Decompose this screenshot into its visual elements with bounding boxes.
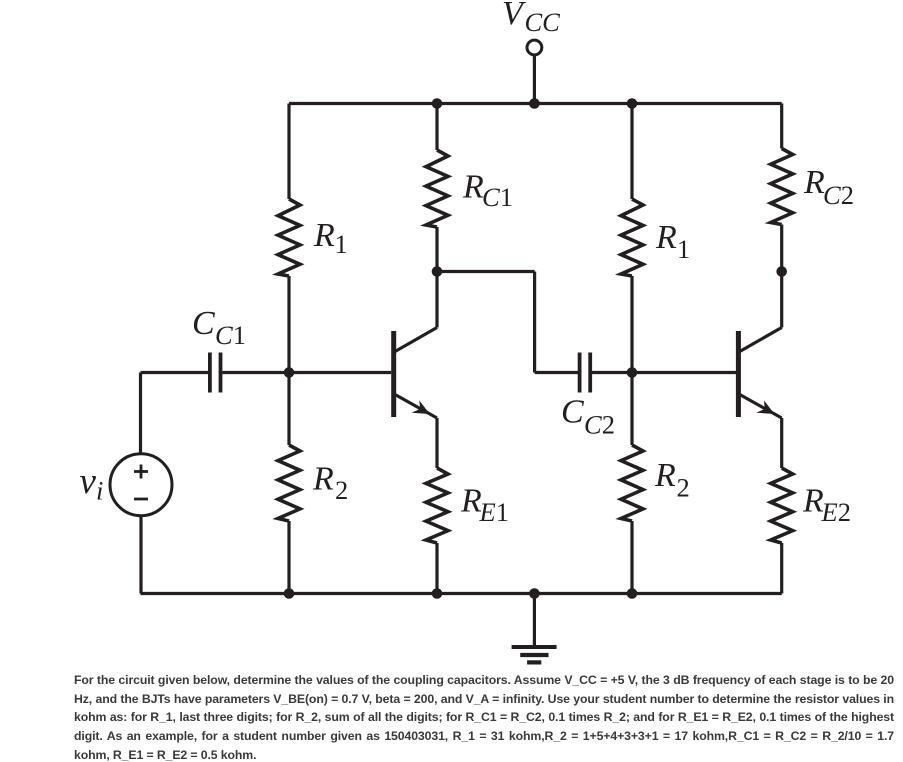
- wire CC2 to Q2 base: [592, 371, 736, 374]
- svg-text:C: C: [192, 305, 215, 342]
- wire Q1 collector vertical: [435, 272, 438, 328]
- wire RE1 bottom: [435, 543, 438, 594]
- resistor RC1: [426, 150, 448, 227]
- svg-text:1: 1: [677, 234, 690, 264]
- wire RC1 bottom: [435, 227, 438, 272]
- wire source bottom: [139, 516, 142, 594]
- wire R1a bottom: [287, 276, 290, 373]
- resistor RE2: [771, 468, 793, 543]
- wire R1b bottom: [630, 276, 633, 373]
- label RC2: [803, 164, 854, 210]
- node bottom dot R2a: [284, 588, 295, 599]
- node base junction stage 2: [627, 367, 638, 378]
- svg-text:C1: C1: [482, 182, 513, 212]
- resistor R2 (stage 1): [278, 445, 300, 521]
- resistor R1 (stage 2): [621, 199, 643, 276]
- wire Vcc stem: [533, 55, 536, 104]
- label R2 (stage 1): [312, 461, 348, 506]
- label RE2: [802, 483, 851, 528]
- transistor Q2 collector diagonal: [740, 328, 782, 352]
- node Vcc junction dot: [529, 98, 540, 109]
- transistor Q1 emitter arrow: [412, 400, 430, 414]
- label R1 (stage 1): [313, 217, 348, 259]
- label CC2: [561, 394, 615, 440]
- label R1 (stage 2): [655, 219, 690, 264]
- node top rail dot R1b: [627, 98, 638, 109]
- wire RE2 bottom: [780, 543, 783, 594]
- wire R2b bottom: [630, 521, 633, 594]
- wire Q2 collector vertical: [780, 272, 783, 328]
- node Q2 collector dot: [776, 266, 787, 277]
- wire to CC2: [535, 371, 578, 374]
- resistor R1 (stage 1): [278, 199, 300, 276]
- source vi circle: [110, 454, 172, 516]
- svg-text:C1: C1: [215, 320, 246, 350]
- svg-text:2: 2: [677, 473, 690, 503]
- wire RC2 bottom: [780, 225, 783, 272]
- svg-text:1: 1: [335, 229, 348, 259]
- label R2 (stage 2): [654, 457, 690, 503]
- capacitor CC1: [210, 353, 221, 393]
- resistor RE1: [426, 468, 448, 543]
- svg-text:R: R: [655, 219, 677, 256]
- svg-text:C: C: [561, 394, 584, 431]
- label VCC: [502, 0, 560, 37]
- transistor Q2 emitter arrow: [756, 400, 774, 414]
- node bottom dot R2b: [627, 588, 638, 599]
- svg-text:2: 2: [335, 475, 348, 505]
- wire Q2 emitter vertical: [780, 418, 783, 468]
- wire bottom rail: [141, 592, 782, 595]
- transistor Q1 collector diagonal: [395, 328, 437, 352]
- resistor RC2: [771, 149, 793, 225]
- wire R1b top: [630, 104, 633, 200]
- wire R1a top: [287, 104, 290, 200]
- ground: [512, 594, 557, 663]
- wire R2a top: [287, 373, 290, 446]
- transistor Q1 base bar: [391, 331, 396, 417]
- node base junction stage 1: [284, 367, 295, 378]
- wire interstage horizontal: [437, 270, 535, 273]
- svg-text:R: R: [313, 217, 335, 254]
- wire top rail: [289, 102, 782, 105]
- svg-text:v: v: [80, 461, 97, 502]
- node bottom dot ground: [529, 588, 540, 599]
- capacitor CC2: [580, 353, 591, 393]
- svg-text:C2: C2: [584, 410, 615, 440]
- svg-text:V: V: [502, 0, 527, 32]
- svg-text:E2: E2: [821, 497, 851, 527]
- node RE1 bottom dot: [432, 588, 443, 599]
- wire RC2 top: [780, 104, 783, 149]
- svg-text:R: R: [462, 169, 484, 206]
- label RE1: [460, 483, 509, 528]
- Vcc terminal circle: [527, 40, 542, 55]
- svg-text:C2: C2: [823, 180, 854, 210]
- wire input to CC1: [141, 371, 209, 374]
- svg-text:R: R: [654, 457, 676, 494]
- svg-text:i: i: [96, 476, 103, 506]
- svg-text:E1: E1: [479, 497, 509, 527]
- svg-text:R: R: [312, 461, 334, 498]
- transistor Q2 emitter diagonal: [740, 395, 782, 419]
- transistor Q2 base bar: [736, 331, 741, 417]
- wire R2a bottom: [287, 521, 290, 594]
- transistor Q1 emitter diagonal: [395, 395, 437, 419]
- wire source top: [139, 373, 142, 454]
- label CC1: [192, 305, 246, 350]
- wire CC1 to Q1 base: [222, 371, 391, 374]
- node top rail dot RC1: [432, 98, 443, 109]
- wire Q1 emitter vertical: [435, 418, 438, 468]
- wire interstage vertical: [533, 272, 536, 373]
- node Q1 collector dot: [432, 266, 443, 277]
- wire RC1 top: [435, 104, 438, 151]
- label RC1: [462, 169, 513, 213]
- resistor R2 (stage 2): [621, 445, 643, 521]
- wire R2b top: [630, 373, 633, 446]
- svg-text:CC: CC: [525, 7, 561, 37]
- label vi: [80, 461, 104, 506]
- svg-text:R: R: [803, 164, 825, 201]
- plus sign: [134, 465, 148, 479]
- minus sign: [134, 498, 148, 501]
